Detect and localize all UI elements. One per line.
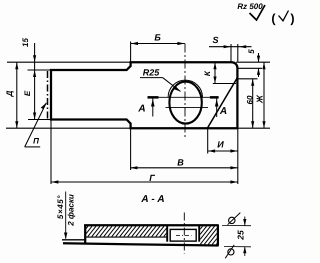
svg-text:Б: Б [154, 33, 161, 43]
svg-text:А - А: А - А [140, 194, 164, 205]
svg-text:R25: R25 [143, 67, 161, 77]
svg-text:5×45°: 5×45° [56, 195, 65, 219]
svg-text:Е: Е [23, 90, 32, 96]
svg-text:П: П [33, 137, 39, 146]
svg-text:Г: Г [149, 173, 155, 183]
svg-text:И: И [217, 140, 224, 150]
svg-text:60: 60 [245, 95, 254, 104]
svg-text:15: 15 [21, 38, 30, 47]
svg-text:А: А [137, 104, 145, 115]
svg-text:2 фаски: 2 фаски [67, 194, 76, 227]
svg-text:25: 25 [235, 230, 245, 241]
svg-text:): ) [290, 12, 294, 26]
svg-text:А: А [219, 106, 227, 117]
svg-text:Rz 500: Rz 500 [237, 2, 263, 11]
svg-text:В: В [177, 158, 184, 168]
svg-text:Ж: Ж [255, 94, 265, 104]
svg-text:S: S [212, 35, 218, 45]
svg-text:Д: Д [5, 90, 14, 97]
svg-text:5: 5 [247, 49, 256, 54]
